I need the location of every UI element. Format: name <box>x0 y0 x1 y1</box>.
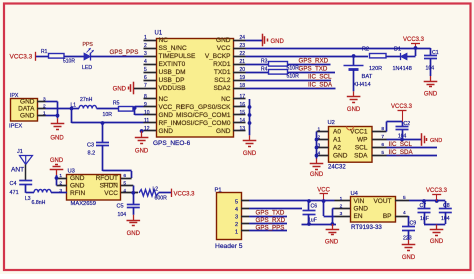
svg-text:LED: LED <box>82 65 92 71</box>
svg-text:TIMEPULSE: TIMEPULSE <box>159 53 197 60</box>
svg-text:VCC: VCC <box>217 45 231 52</box>
svg-text:GND: GND <box>216 37 231 44</box>
svg-text:MISO/CFG_COM1: MISO/CFG_COM1 <box>176 112 231 119</box>
svg-text:SDA: SDA <box>354 153 368 160</box>
svg-text:VCC3.3: VCC3.3 <box>174 191 196 197</box>
svg-text:1: 1 <box>144 35 147 41</box>
svg-text:1: 1 <box>340 196 343 202</box>
svg-text:GND: GND <box>424 91 438 97</box>
svg-text:GPS_TXD: GPS_TXD <box>256 210 285 217</box>
svg-text:8: 8 <box>144 94 147 100</box>
svg-text:3: 3 <box>144 51 147 57</box>
svg-text:120R: 120R <box>369 66 382 72</box>
svg-text:VDDUSB: VDDUSB <box>159 85 186 92</box>
svg-text:A2: A2 <box>333 145 341 152</box>
svg-text:USB_DM: USB_DM <box>159 69 186 76</box>
svg-text:GPS_RXD: GPS_RXD <box>256 217 286 224</box>
svg-text:A0: A0 <box>333 129 341 136</box>
svg-text:RFIN: RFIN <box>70 190 85 197</box>
svg-text:U2: U2 <box>328 120 335 126</box>
svg-text:XH414: XH414 <box>353 82 372 88</box>
svg-text:GPS_PPS: GPS_PPS <box>256 225 285 232</box>
svg-text:BAT: BAT <box>362 74 373 80</box>
svg-text:GND: GND <box>159 128 174 135</box>
svg-text:GND: GND <box>127 231 141 237</box>
svg-text:GND: GND <box>20 99 35 106</box>
svg-text:2: 2 <box>235 222 238 228</box>
svg-text:CFG_GPS0/SCK: CFG_GPS0/SCK <box>181 104 232 111</box>
svg-text:15: 15 <box>239 110 245 116</box>
svg-text:4: 4 <box>403 210 406 216</box>
svg-text:IIC_SDA: IIC_SDA <box>308 81 333 88</box>
svg-text:GND: GND <box>50 135 64 141</box>
svg-text:U1: U1 <box>155 31 163 37</box>
svg-text:SCL: SCL <box>355 145 368 152</box>
svg-text:6.8nH: 6.8nH <box>32 200 46 206</box>
svg-text:Header 5: Header 5 <box>215 243 243 250</box>
svg-text:GND: GND <box>243 151 257 157</box>
svg-text:1uF: 1uF <box>420 216 429 222</box>
svg-text:VIN: VIN <box>354 198 365 205</box>
svg-text:L3: L3 <box>25 196 31 202</box>
svg-text:223: 223 <box>403 236 412 242</box>
svg-text:A1: A1 <box>333 137 341 144</box>
svg-text:EN: EN <box>354 213 363 220</box>
svg-text:U4: U4 <box>351 191 359 197</box>
svg-text:104: 104 <box>441 216 450 222</box>
svg-text:MAX2659: MAX2659 <box>71 201 96 207</box>
svg-text:1: 1 <box>318 126 321 132</box>
svg-text:104: 104 <box>118 212 127 218</box>
svg-text:4: 4 <box>144 59 147 65</box>
svg-text:EXTINT0: EXTINT0 <box>159 61 186 68</box>
svg-text:VCC3.3: VCC3.3 <box>426 188 448 194</box>
svg-text:510R: 510R <box>287 66 300 72</box>
svg-text:104: 104 <box>426 66 435 72</box>
svg-text:U3: U3 <box>68 169 75 175</box>
svg-text:6: 6 <box>381 142 384 148</box>
svg-text:GND: GND <box>216 128 231 135</box>
svg-text:L2: L2 <box>153 186 159 192</box>
svg-text:17: 17 <box>239 94 245 100</box>
svg-text:3: 3 <box>235 214 238 220</box>
svg-text:GND: GND <box>333 153 348 160</box>
svg-text:D1: D1 <box>394 47 401 53</box>
svg-text:R3: R3 <box>261 59 268 65</box>
svg-text:R5: R5 <box>113 100 120 106</box>
svg-text:1: 1 <box>235 229 238 235</box>
svg-text:C4: C4 <box>10 181 17 187</box>
svg-text:R4: R4 <box>261 67 268 73</box>
svg-text:USB_DP: USB_DP <box>159 77 185 84</box>
svg-text:22: 22 <box>239 51 245 57</box>
svg-text:C5: C5 <box>117 204 124 210</box>
svg-text:C8: C8 <box>443 203 450 209</box>
svg-text:NC: NC <box>159 96 169 103</box>
svg-text:GND: GND <box>430 239 444 245</box>
svg-text:GND: GND <box>347 107 361 113</box>
svg-text:4: 4 <box>235 207 238 213</box>
svg-text:19: 19 <box>239 75 245 81</box>
svg-text:GND: GND <box>50 158 64 164</box>
svg-text:GND: GND <box>159 112 174 119</box>
svg-text:RXD1: RXD1 <box>213 61 231 68</box>
svg-text:14: 14 <box>239 118 245 124</box>
svg-text:R1: R1 <box>41 49 48 55</box>
svg-text:IIC_SCL: IIC_SCL <box>389 141 413 148</box>
svg-text:8: 8 <box>381 126 384 132</box>
svg-text:18: 18 <box>239 83 245 89</box>
svg-text:GPS_NEO-6: GPS_NEO-6 <box>153 140 191 147</box>
svg-text:8.2: 8.2 <box>88 151 96 157</box>
svg-text:471: 471 <box>10 190 19 196</box>
svg-text:10: 10 <box>144 110 150 116</box>
svg-text:VCC3.3: VCC3.3 <box>391 104 413 110</box>
svg-text:GND: GND <box>70 183 85 190</box>
svg-text:5: 5 <box>235 199 238 205</box>
svg-text:DATA: DATA <box>18 106 35 113</box>
svg-text:2: 2 <box>340 204 343 210</box>
svg-text:C1: C1 <box>432 50 439 56</box>
svg-text:GND: GND <box>113 86 127 92</box>
svg-text:600R: 600R <box>155 196 168 202</box>
svg-text:12: 12 <box>144 126 150 132</box>
svg-text:GPS_PPS: GPS_PPS <box>110 49 139 56</box>
svg-text:24: 24 <box>239 35 245 41</box>
svg-text:GND: GND <box>271 39 285 45</box>
svg-text:510R: 510R <box>287 74 300 80</box>
svg-text:TXD1: TXD1 <box>214 69 231 76</box>
svg-text:6: 6 <box>144 75 147 81</box>
svg-text:NC: NC <box>221 96 231 103</box>
svg-text:5: 5 <box>381 150 384 156</box>
svg-text:C7: C7 <box>420 203 427 209</box>
svg-text:VCC: VCC <box>317 187 330 193</box>
svg-text:510R: 510R <box>63 59 75 65</box>
svg-text:L1: L1 <box>71 103 77 109</box>
svg-text:C3: C3 <box>87 143 94 149</box>
svg-text:SCL2: SCL2 <box>214 77 231 84</box>
svg-text:GND: GND <box>310 172 324 178</box>
svg-text:GND: GND <box>354 206 369 213</box>
svg-text:27nH: 27nH <box>80 97 93 103</box>
svg-text:C2: C2 <box>404 121 411 127</box>
svg-text:IPEX: IPEX <box>9 123 22 129</box>
svg-text:GPS_TXD: GPS_TXD <box>299 66 328 73</box>
svg-text:VOUT: VOUT <box>373 198 391 205</box>
svg-text:21: 21 <box>239 59 245 65</box>
svg-text:GND: GND <box>430 138 442 144</box>
svg-text:VCC1: VCC1 <box>350 129 368 136</box>
svg-text:J1: J1 <box>17 149 23 155</box>
svg-text:R2: R2 <box>362 47 369 53</box>
svg-text:5: 5 <box>144 67 147 73</box>
svg-text:1N4148: 1N4148 <box>393 66 412 72</box>
svg-text:9: 9 <box>144 102 147 108</box>
svg-text:VCC3.3: VCC3.3 <box>403 37 425 43</box>
svg-text:WP: WP <box>357 137 367 144</box>
svg-text:20: 20 <box>239 67 245 73</box>
svg-text:PPS: PPS <box>83 42 94 48</box>
svg-text:GND: GND <box>70 175 85 182</box>
svg-text:C6: C6 <box>311 203 318 209</box>
svg-text:ANT: ANT <box>11 166 24 173</box>
svg-text:7: 7 <box>381 134 384 140</box>
svg-text:V_BCKP: V_BCKP <box>205 53 231 60</box>
svg-text:24C32: 24C32 <box>328 164 346 170</box>
svg-text:13: 13 <box>239 126 245 132</box>
svg-text:SHDN: SHDN <box>100 183 119 190</box>
svg-text:16: 16 <box>239 102 245 108</box>
svg-text:11: 11 <box>144 118 149 124</box>
svg-text:IIC_SCL: IIC_SCL <box>308 73 332 80</box>
svg-text:GND: GND <box>20 113 35 120</box>
svg-text:C9: C9 <box>410 221 417 227</box>
svg-text:VCC3.3: VCC3.3 <box>10 54 33 61</box>
svg-text:RFOUT: RFOUT <box>96 175 118 182</box>
svg-text:SS_N/NC: SS_N/NC <box>159 45 187 52</box>
svg-text:RF_IN: RF_IN <box>159 120 178 127</box>
svg-text:23: 23 <box>239 43 245 49</box>
svg-text:GND: GND <box>325 240 339 246</box>
svg-text:NC: NC <box>159 37 169 44</box>
svg-text:RT9193-33: RT9193-33 <box>351 224 382 231</box>
svg-text:7: 7 <box>144 83 147 89</box>
svg-text:GPS_RXD: GPS_RXD <box>299 58 329 65</box>
svg-text:10R: 10R <box>103 112 113 118</box>
svg-text:IIC_SDA: IIC_SDA <box>389 149 414 156</box>
svg-text:GND: GND <box>402 255 416 261</box>
svg-text:SDA2: SDA2 <box>214 85 231 92</box>
svg-text:BP: BP <box>383 213 392 220</box>
svg-text:2: 2 <box>144 43 147 49</box>
svg-text:5: 5 <box>403 195 406 201</box>
svg-text:GND: GND <box>135 149 149 155</box>
svg-text:MOSI/CFG_COM0: MOSI/CFG_COM0 <box>176 120 231 127</box>
svg-text:3: 3 <box>340 211 343 217</box>
svg-text:VCC: VCC <box>104 190 118 197</box>
